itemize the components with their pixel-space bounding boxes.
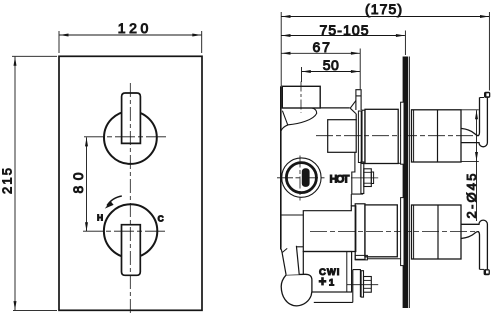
stop stem tab [350,101,356,114]
lower bolt centerline [347,284,379,286]
svg-text:80: 80 [70,172,86,193]
svg-text:C: C [158,213,164,223]
lower port rectangle [303,206,356,252]
svg-text:HOT: HOT [330,173,350,185]
body right face steps [351,114,363,206]
upper bolt centerline [351,177,378,179]
upper cartridge washer [358,110,365,163]
dimension (175) [281,1,489,91]
lower bolt hex [364,277,372,293]
svg-text:1: 1 [329,277,335,288]
lower knob side rect [412,205,462,259]
svg-text:67: 67 [312,39,330,55]
boss crosshair [277,156,325,201]
svg-text:50: 50 [323,57,339,73]
upper knob side rect [412,110,462,162]
lower knob handle [122,225,141,276]
lower cartridge flange [355,204,365,260]
boss slot [302,168,310,187]
dimension 215 [0,56,57,310]
body top edge [320,107,350,109]
upper knob handle [122,93,141,143]
inlet port rectangle [282,86,320,108]
elbow bulb [281,274,312,306]
elbow neck [281,246,299,275]
body shoulder curves [281,108,317,131]
dimension 67 [282,39,361,89]
temperature boss outer circle [282,158,321,197]
upper knob horizontal centerline [84,136,166,138]
upper axis centerline [316,135,479,137]
upper bolt washer [361,162,364,194]
lower knob circle [104,204,157,257]
upper knob circle [104,111,157,164]
body left edge [280,86,282,249]
lower cartridge base lines [355,255,400,260]
lower knob horizontal centerline [83,230,165,232]
svg-text:215: 215 [0,168,15,194]
lower lever [461,220,490,275]
wall plate black bar [403,57,410,309]
upper lever [461,92,490,147]
dimension 120 [59,20,202,53]
rotation arrow arc [105,196,122,209]
svg-text:75-105: 75-105 [320,22,369,38]
body bottom edge [294,246,303,248]
dimension 80 [70,137,88,231]
svg-text:120: 120 [118,20,149,36]
upper bolt hex [364,169,374,187]
svg-text:(175): (175) [365,1,402,17]
stop stem column [356,90,361,110]
body shelf line [281,214,303,216]
upper cartridge cylinder [365,109,401,163]
lower bolt washer [361,271,363,297]
temperature boss inner circle [286,163,316,193]
cartridge front collar upper [401,102,404,164]
lower axis centerline [310,231,479,233]
elbow outlet stub [314,301,353,303]
dimension 50 [302,57,360,82]
svg-text:2-Ø45: 2-Ø45 [464,174,479,219]
front plate outline [59,56,202,310]
dimension 75-105 [282,22,406,55]
front vertical centerline [129,83,131,315]
svg-text:H: H [97,212,103,222]
outlet housing rect [303,252,351,293]
inlet centerline [300,82,302,113]
upper port rectangle [328,120,357,153]
lower cartridge cylinder [365,205,397,257]
dimension 2-dia45 [462,110,480,221]
label +1 [319,277,335,288]
lower bolt bracket [353,270,361,303]
cartridge front collar lower [401,198,404,266]
